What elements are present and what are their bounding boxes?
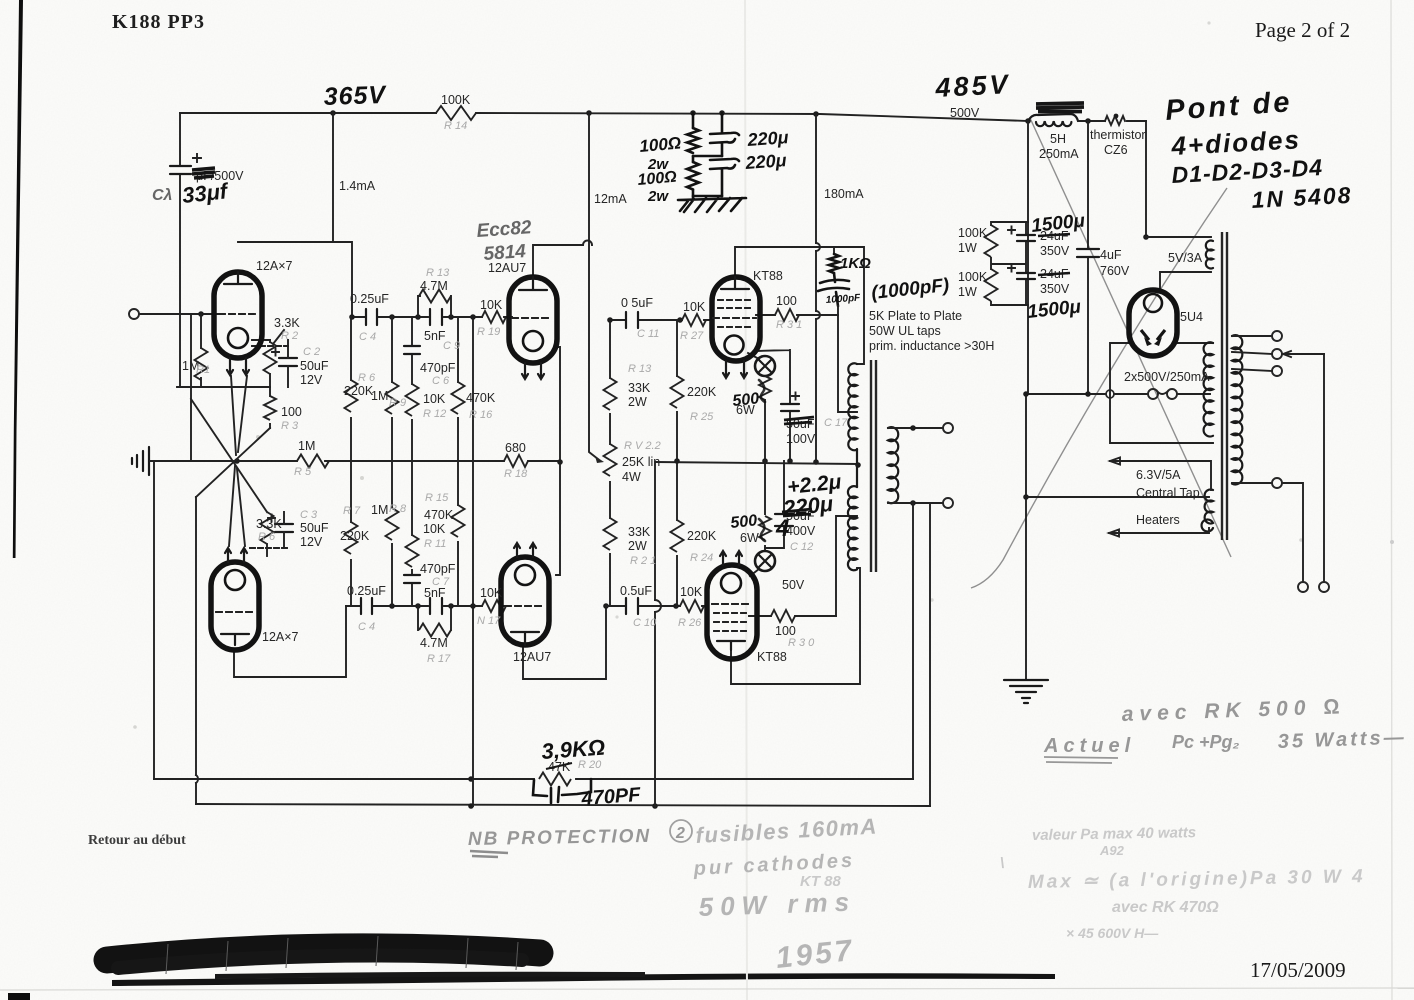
svg-text:35 Watts―: 35 Watts― <box>1277 727 1407 753</box>
scribbled-out label above choke <box>1036 103 1084 112</box>
resistor R15 470K <box>452 505 465 537</box>
svg-text:12V: 12V <box>300 535 323 549</box>
resistor 500 6W upper (overwritten) <box>759 376 771 400</box>
svg-text:100: 100 <box>775 624 796 638</box>
wire: divider to B+ line <box>1026 222 1028 305</box>
svg-text:4W: 4W <box>622 470 641 484</box>
svg-text:0.25uF: 0.25uF <box>350 292 389 306</box>
wire: V3 plate row 12mA <box>533 245 583 277</box>
svg-text:C 11: C 11 <box>637 328 659 340</box>
svg-text:thermistor: thermistor <box>1090 128 1146 142</box>
svg-text:33μf: 33μf <box>181 178 231 208</box>
wire: 12mA vertical to pot wiper <box>589 113 598 459</box>
node cap branch <box>719 110 725 116</box>
wire: star diagonal 1 <box>196 428 270 497</box>
svg-text:1M: 1M <box>371 503 388 517</box>
svg-text:5V/3A: 5V/3A <box>1168 251 1203 265</box>
svg-text:350V: 350V <box>1040 244 1070 258</box>
node bias divider <box>690 110 696 116</box>
svg-text:25K lin: 25K lin <box>622 455 660 469</box>
svg-text:R 6: R 6 <box>258 531 276 543</box>
wire: 220K R6b branch <box>350 317 352 461</box>
wire: lower cathode link dashed <box>250 547 290 549</box>
wire: lower coupling row V2-V4 <box>346 605 508 607</box>
capacitor C11 0.5uF <box>626 312 638 328</box>
capacitor C12 50uF/400V <box>765 461 784 548</box>
node 180mA branch <box>813 111 819 117</box>
wire: left vertical upper aux <box>190 314 192 461</box>
wire: lower KT88 plate to OPT <box>731 568 860 684</box>
node 12mA branch <box>586 110 592 116</box>
svg-text:2W: 2W <box>628 539 647 553</box>
capacitor 1000pF (hand scribble) <box>818 273 849 306</box>
svg-text:R 3: R 3 <box>281 420 299 432</box>
svg-text:Central Tap: Central Tap <box>1136 486 1200 500</box>
wire: mains taps <box>1232 335 1272 337</box>
svg-text:0 5uF: 0 5uF <box>621 296 653 310</box>
capacitor 24uF 350V a <box>1017 235 1035 241</box>
svg-text:2w: 2w <box>647 188 669 205</box>
svg-text:100K: 100K <box>958 270 988 284</box>
svg-text:R 7: R 7 <box>343 505 361 517</box>
annotation arrow line B over PSU <box>971 188 1227 588</box>
svg-text:100: 100 <box>281 405 302 419</box>
resistor R20 47K <box>539 773 571 786</box>
svg-text:17/05/2009: 17/05/2009 <box>1250 958 1346 982</box>
capacitor C7 470pF <box>404 575 420 583</box>
svg-text:220K: 220K <box>687 529 717 543</box>
wire: vertical x=655 rail to NFB2 <box>654 462 656 806</box>
strikes over 24uF labels <box>1038 234 1070 275</box>
svg-text:4.7M: 4.7M <box>420 636 448 650</box>
handwritten bracket + capacitor 470PF <box>533 779 591 796</box>
svg-text:4: 4 <box>775 515 789 542</box>
svg-text:500: 500 <box>732 390 760 410</box>
wire: top B+ rail 365V <box>180 113 1028 121</box>
svg-text:1M: 1M <box>298 439 315 453</box>
wire: link resistors to caps (hand) <box>693 156 722 196</box>
pentode V6 KT88 lower (inverted) <box>707 551 757 659</box>
svg-text:R 6: R 6 <box>358 372 376 384</box>
capacitor C4 0.25uF <box>366 309 377 325</box>
svg-text:R 11: R 11 <box>424 538 446 550</box>
svg-text:220K: 220K <box>687 385 717 399</box>
svg-text:3.3K: 3.3K <box>274 316 300 330</box>
rectifier U1 5U4 <box>1129 290 1177 356</box>
wire: bias link row <box>177 386 270 388</box>
svg-text:R 13: R 13 <box>628 363 652 375</box>
svg-text:100K: 100K <box>441 93 471 107</box>
svg-text:5K Plate to Plate: 5K Plate to Plate <box>869 309 962 323</box>
resistor R24 220K <box>671 520 684 552</box>
node NFB taps <box>468 776 474 782</box>
resistor R8 1M <box>386 508 399 540</box>
resistor R5 1M <box>297 455 329 468</box>
triode V4 12AU7 lower (inverted) <box>501 543 549 645</box>
svg-text:5H: 5H <box>1050 132 1066 146</box>
svg-text:C 6: C 6 <box>432 375 450 387</box>
svg-text:R 26: R 26 <box>678 617 702 629</box>
wire: 470K R16 branch <box>457 317 459 461</box>
wire: 220K R25/R24 chain <box>676 320 678 606</box>
resistor R2 3.3K <box>269 340 271 387</box>
svg-text:6W: 6W <box>740 531 759 545</box>
annotation arrow line A over PSU <box>1030 118 1231 557</box>
svg-text:1W: 1W <box>958 241 977 255</box>
svg-text:3.3K: 3.3K <box>256 517 282 531</box>
svg-text:100: 100 <box>776 294 797 308</box>
100K 1W divider ladder <box>991 222 1026 305</box>
svg-text:500: 500 <box>730 512 758 532</box>
wire: mains vertical right <box>1323 354 1325 582</box>
svg-text:C 12: C 12 <box>790 541 813 553</box>
wire: V3/V4 shared cathode <box>556 347 560 575</box>
wire: lower KT88 coupling <box>606 605 708 607</box>
svg-text:350V: 350V <box>1040 282 1070 296</box>
label pointer 3.3K <box>273 330 284 344</box>
svg-text:2W: 2W <box>628 395 647 409</box>
wire: snubber branch <box>833 247 835 254</box>
wire: lower 12AX7 plate line <box>234 606 346 677</box>
svg-text:33K: 33K <box>628 525 651 539</box>
wire: UL tap lower <box>836 516 857 616</box>
capacitor C6 470pF <box>404 346 420 354</box>
wire: HT rail to PSU <box>1025 118 1031 124</box>
svg-text:10K: 10K <box>480 298 503 312</box>
wire: handwritten bias dropper chain <box>692 113 695 198</box>
wire: left vertical from rail <box>179 113 181 387</box>
svg-text:3,9KΩ: 3,9KΩ <box>541 735 606 764</box>
svg-text:12AU7: 12AU7 <box>513 650 551 664</box>
wire: secondary taps <box>888 428 943 503</box>
resistor R9 1M <box>386 382 399 414</box>
scribble over 50uF upper <box>784 417 814 424</box>
wire: screen 100 R30 lower <box>749 615 836 617</box>
svg-text:220K: 220K <box>340 529 370 543</box>
svg-text:R 15: R 15 <box>425 492 449 504</box>
svg-text:C 4: C 4 <box>359 331 376 343</box>
svg-text:50uF: 50uF <box>300 521 329 535</box>
svg-text:6.3V/5A: 6.3V/5A <box>1136 468 1181 482</box>
wire: choke to thermistor <box>1078 120 1146 122</box>
output transformer secondary <box>888 427 898 503</box>
svg-text:5814: 5814 <box>483 241 527 265</box>
svg-text:470K: 470K <box>466 391 496 405</box>
svg-text:4uF: 4uF <box>1100 248 1122 262</box>
svg-text:R 2 1: R 2 1 <box>630 555 656 567</box>
svg-text:R 3 0: R 3 0 <box>788 637 815 649</box>
resistor R17b 10K <box>482 600 506 612</box>
5V/3A winding loop <box>1146 237 1211 292</box>
svg-text:× 45 600V H—: × 45 600V H— <box>1066 925 1159 941</box>
resistor 100K 1W a <box>985 225 998 257</box>
resistor R25 220K <box>671 376 684 408</box>
node star junction <box>234 458 240 464</box>
svg-text:760V: 760V <box>1100 264 1130 278</box>
wire: second lower vertical <box>195 497 197 804</box>
svg-text:C 17: C 17 <box>824 417 848 429</box>
resistor R6 3.3K lower <box>266 544 268 548</box>
resistor 100ohm 2W (hand) <box>687 128 699 153</box>
svg-text:R 8: R 8 <box>389 503 407 515</box>
svg-text:R1: R1 <box>196 364 210 376</box>
svg-text:1M: 1M <box>371 389 388 403</box>
note circled 2 <box>670 820 692 842</box>
wire: 10K+470pF lower branch <box>411 461 413 606</box>
svg-text:12A×7: 12A×7 <box>256 259 293 273</box>
mains primary winding <box>1232 335 1242 484</box>
resistor R21 33K 2W <box>604 518 617 550</box>
svg-text:R 13: R 13 <box>426 267 450 279</box>
wire: 1.4mA vertical <box>332 113 334 242</box>
svg-text:C 10: C 10 <box>633 617 657 629</box>
resistor R18 680 <box>504 455 528 467</box>
wire: NFB line 2 <box>196 804 930 806</box>
svg-text:10K: 10K <box>423 392 446 406</box>
wire: 180mA vertical <box>815 115 817 462</box>
thermistor CZ6 <box>1105 116 1125 125</box>
svg-text:220K: 220K <box>344 384 374 398</box>
svg-text:100Ω: 100Ω <box>637 169 678 189</box>
potentiometer RV22 25K lin <box>604 444 617 476</box>
svg-text:R 12: R 12 <box>423 408 446 420</box>
wire: 1M R9 branch <box>391 317 393 461</box>
capacitor C3 50uF/12V <box>275 524 293 532</box>
svg-text:C 4: C 4 <box>358 621 375 633</box>
resistor R23 33K 2W <box>604 378 617 410</box>
svg-text:100Ω: 100Ω <box>639 133 682 156</box>
svg-text:CZ6: CZ6 <box>1104 143 1128 157</box>
svg-text:Ecc82: Ecc82 <box>476 217 533 242</box>
svg-text:K188 PP3: K188 PP3 <box>112 11 205 33</box>
ground PSU <box>1004 680 1048 703</box>
resistor R31 100 <box>775 309 799 321</box>
resistor R12 10K <box>406 384 419 416</box>
resistor R1 1M <box>200 314 202 387</box>
svg-text:50uF: 50uF <box>300 359 329 373</box>
wire: PSU bottom bus <box>1026 393 1210 395</box>
svg-text:33K: 33K <box>628 381 651 395</box>
scribble over 50uF lower <box>782 509 812 516</box>
svg-text:KT88: KT88 <box>753 269 783 283</box>
svg-text:R V 2.2: R V 2.2 <box>624 440 661 452</box>
svg-text:\: \ <box>1000 855 1004 872</box>
scan artifact: bottom-left corner mark <box>8 993 30 1000</box>
svg-text:0.5uF: 0.5uF <box>620 584 652 598</box>
wire: star rays to V1 pins <box>231 376 247 455</box>
resistor R3 100 <box>269 387 271 428</box>
svg-text:100K: 100K <box>958 226 988 240</box>
svg-text:prim. inductance >30H: prim. inductance >30H <box>869 339 994 353</box>
svg-text:220μ: 220μ <box>744 150 787 173</box>
output transformer core <box>871 360 876 572</box>
svg-text:R 27: R 27 <box>680 330 704 342</box>
svg-text:valeur Pa max 40 watts: valeur Pa max 40 watts <box>1032 824 1197 844</box>
svg-text:avec RK 470Ω: avec RK 470Ω <box>1112 899 1219 916</box>
svg-text:R 16: R 16 <box>469 409 493 421</box>
svg-text:Cλ: Cλ <box>152 187 172 204</box>
svg-text:12V: 12V <box>300 373 323 387</box>
svg-text:5U4: 5U4 <box>1180 310 1203 324</box>
svg-text:470pF: 470pF <box>420 562 456 576</box>
HV winding 2x500V <box>1204 342 1213 436</box>
svg-text:10K: 10K <box>423 522 446 536</box>
wire: 470K R15 branch <box>457 461 459 606</box>
svg-text:Page 2 of 2: Page 2 of 2 <box>1255 18 1350 42</box>
svg-text:470pF: 470pF <box>420 361 456 375</box>
svg-text:R 19: R 19 <box>477 326 500 338</box>
svg-text:100V: 100V <box>786 432 816 446</box>
svg-text:180mA: 180mA <box>824 187 864 201</box>
svg-text:50W rms: 50W rms <box>698 887 856 922</box>
svg-text:470PF: 470PF <box>580 784 642 810</box>
svg-text:50V: 50V <box>782 578 805 592</box>
wire: B+ vertical / ground line <box>1026 121 1028 680</box>
wire: speaker return verticals <box>913 503 930 806</box>
svg-text:1W: 1W <box>958 285 977 299</box>
resistor R19 10K <box>482 311 506 323</box>
capacitor C4b 0.25uF <box>361 598 372 614</box>
wire: star rays to V2 pins <box>229 466 245 546</box>
wire: heater bottom arrow line <box>1109 528 1209 537</box>
svg-text:Retour au début: Retour au début <box>88 833 186 848</box>
wire: screen 100 R31 <box>756 314 838 316</box>
svg-text:2: 2 <box>675 825 685 842</box>
heater winding <box>1202 490 1213 532</box>
node OPT centre tap <box>855 462 861 468</box>
scan artifact: bottom black strip <box>112 973 1055 986</box>
svg-text:5nF: 5nF <box>424 586 446 600</box>
node 365V <box>330 110 336 116</box>
svg-text:N 17: N 17 <box>477 615 501 627</box>
wire: star diagonal 2 <box>191 399 267 512</box>
svg-text:Pc +Pg₂: Pc +Pg₂ <box>1172 732 1240 752</box>
lamp/fuse symbol lower <box>755 551 775 571</box>
wire: snubber down + UL tap upper <box>838 306 857 412</box>
svg-text:470K: 470K <box>424 508 454 522</box>
resistor R13 4.7M top box <box>418 296 451 317</box>
svg-text:R 18: R 18 <box>504 468 528 480</box>
choke 5H 250mA <box>1028 114 1078 121</box>
svg-text:Heaters: Heaters <box>1136 513 1180 527</box>
svg-text:1N 5408: 1N 5408 <box>1251 182 1353 213</box>
resistor 100K 1W b <box>985 269 998 301</box>
ground input <box>132 447 149 475</box>
scan artifact: left black bar <box>13 0 23 558</box>
svg-text:R 25: R 25 <box>690 411 714 423</box>
ground (hand scribble) <box>678 198 746 212</box>
wire: 6.3V arrow line <box>1110 458 1211 491</box>
svg-text:12mA: 12mA <box>594 192 627 206</box>
svg-text:R 17: R 17 <box>427 653 451 665</box>
resistor R16 470K <box>452 382 465 414</box>
capacitor C2 50uF/12V <box>279 358 297 366</box>
triode V3 12AU7 upper <box>509 277 557 379</box>
svg-text:R 3 1: R 3 1 <box>776 319 802 331</box>
resistor R30 100 <box>771 610 795 622</box>
svg-text:10K: 10K <box>480 586 503 600</box>
fuse in bus <box>1148 389 1158 399</box>
wire: upper KT88 coupling <box>610 319 712 321</box>
svg-text:400V: 400V <box>786 524 816 538</box>
capacitor C1 33uF/500V <box>170 166 191 174</box>
pentode V5 KT88 upper <box>712 277 760 378</box>
resistor R11 10K <box>406 535 419 567</box>
HV secondary box <box>1110 343 1213 443</box>
capacitor C10 0.5uF <box>626 598 638 614</box>
wire: 1M R8 branch <box>391 461 393 606</box>
wire: upper coupling row V1-V3 <box>352 316 512 318</box>
svg-text:1.4mA: 1.4mA <box>339 179 376 193</box>
wire: central tap line <box>1026 496 1209 498</box>
svg-text:50W UL taps: 50W UL taps <box>869 324 941 338</box>
svg-text:NB PROTECTION: NB PROTECTION <box>468 826 652 850</box>
wire: vertical feedback x=473 <box>472 317 474 806</box>
wire: phase splitter chain <box>609 320 611 606</box>
svg-text:2x500V/250mA: 2x500V/250mA <box>1124 370 1210 384</box>
resistor 1K (hand) <box>829 254 839 273</box>
svg-text:R 5: R 5 <box>294 466 312 478</box>
svg-text:R 2: R 2 <box>281 330 298 342</box>
wire: left lower vertical to NFB line <box>153 461 155 779</box>
wire: NFB line 1 <box>154 778 913 780</box>
resistor 100ohm 2W b (hand) <box>687 162 699 190</box>
svg-text:C 9: C 9 <box>443 340 460 352</box>
wire: upper KT88 plate to OPT <box>735 247 864 364</box>
svg-text:4.7M: 4.7M <box>420 279 448 293</box>
capacitor 24uF 350V b <box>1017 273 1035 279</box>
power transformer core <box>1222 232 1227 540</box>
wire: rectifier feed vertical <box>1145 121 1147 237</box>
svg-text:220μ: 220μ <box>746 127 789 150</box>
node input grid <box>198 311 204 317</box>
output transformer primary winding <box>848 363 857 450</box>
wire: 220K R7 branch <box>350 461 352 606</box>
svg-text:250mA: 250mA <box>1039 147 1079 161</box>
capacitor 4uF 760V <box>1087 121 1089 394</box>
capacitor C8 5nF <box>430 598 442 614</box>
svg-text:0.25uF: 0.25uF <box>347 584 386 598</box>
svg-text:A92: A92 <box>1099 843 1125 858</box>
wire: 470pF+10K branch <box>411 317 413 461</box>
resistor R17 4.7M bottom box <box>418 606 451 630</box>
redaction bar <box>107 947 540 960</box>
resistor R7 220K <box>345 522 358 554</box>
wire: mains bottom tap <box>1232 483 1303 582</box>
svg-text:C 3: C 3 <box>300 509 318 521</box>
capacitor 220u (hand) <box>710 113 739 156</box>
svg-text:485V: 485V <box>934 69 1012 103</box>
svg-text:10K: 10K <box>680 585 703 599</box>
svg-text:C 2: C 2 <box>303 346 320 358</box>
wire: V4 plate row <box>523 606 606 679</box>
lamp/fuse symbol upper <box>755 356 775 376</box>
capacitor 220u b (hand) <box>710 159 739 196</box>
svg-text:R 24: R 24 <box>690 552 713 564</box>
svg-text:12A×7: 12A×7 <box>262 630 299 644</box>
resistor R14 100K <box>436 106 476 120</box>
resistor R26 10K <box>680 600 704 612</box>
svg-text:Actuel: Actuel <box>1043 735 1135 757</box>
capacitor C9 5nF <box>430 309 442 325</box>
node <box>349 314 355 320</box>
svg-text:1KΩ: 1KΩ <box>840 255 871 272</box>
triode V2 12AX7 lower (inverted) <box>211 548 259 650</box>
wire: input lead <box>139 313 219 315</box>
input terminal <box>129 309 139 319</box>
svg-text:R 9: R 9 <box>389 397 406 409</box>
svg-text:365V: 365V <box>323 81 388 111</box>
